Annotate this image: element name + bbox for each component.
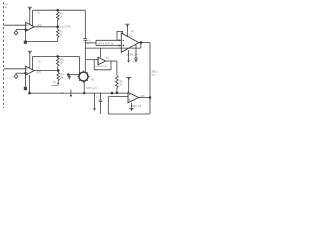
svg-text:1u: 1u [96,96,99,98]
svg-text:4(1): 4(1) [37,24,41,27]
wire top rail [33,9,86,11]
svg-text:LM358_1/4: LM358_1/4 [126,54,139,57]
node at U4 output [149,97,151,99]
supply arrow below R4 [57,81,59,86]
svg-text:(2): (2) [38,61,41,64]
ground arrow at motor left [68,75,72,80]
wire stub left of R4 arrow [52,84,59,86]
svg-text:1/: 1/ [5,5,7,9]
node on bottom rail left [29,92,31,94]
wire filter input split [95,40,97,45]
ground pad box U1 [24,41,27,44]
pin marks U2 [26,69,27,73]
minus mark U3a [123,39,125,41]
label R4 value [60,74,64,80]
svg-text:2k: 2k [119,84,122,87]
label (2) [38,61,41,64]
wire feedback down from output [140,43,142,49]
wire U1 output [34,26,58,28]
node junction at U1 output / R1 / R2 [57,26,59,28]
svg-text:LM358_1/4: LM358_1/4 [95,66,107,68]
label (1) [37,12,40,15]
wire feedback over top of U3a [117,31,123,40]
svg-text:2V: 2V [53,81,56,84]
svg-text:1/4: 1/4 [105,58,109,60]
label right column values [151,70,158,77]
wire down from U2 plus node [25,73,27,87]
plus mark U3a [123,45,125,47]
op-amp U3b [98,57,106,65]
supply arrow below motor area [70,90,72,98]
wire U3a output [139,42,150,44]
label 4(7) [37,71,41,74]
power tap V+ above U2 [28,51,32,68]
ground diamond near U1 [14,30,18,35]
svg-text:1/4: 1/4 [130,30,134,33]
wire U3b feedback loop [94,60,111,70]
node junction at U2 output / R3 / R4 [57,70,59,72]
label LM358 below U3b [95,66,107,68]
wire riser to U3b [100,48,102,57]
wire riser to top rail [32,10,34,26]
svg-text:2k: 2k [60,34,63,37]
op-amp U3a [121,33,138,52]
node on motor left wire [67,74,69,76]
node on rail at R1 [57,9,59,11]
label C1 value [87,40,92,46]
arrow into inverting input [119,39,122,41]
label near cap C4 [96,96,105,100]
wire U2 noninverting input [16,72,26,74]
wire mid rail drop to motor [78,56,80,74]
svg-text:1u /: 1u / [151,73,156,77]
ground diamond near U2 [14,73,18,78]
label LM358 below U3a [126,54,139,57]
node on mid rail at R3 [57,56,59,58]
wire U3a inverting input [96,39,121,41]
ground below U4 [129,103,133,112]
wire motor bottom lead [83,81,85,93]
wire return to R2 bottom [26,40,58,42]
node label top-left [5,2,8,9]
label 2(8) [140,95,145,98]
label 2V [53,81,56,84]
node on bottom rail mid [111,92,113,94]
svg-text:1/4: 1/4 [129,35,133,38]
node junction U2 plus input [25,72,27,74]
wire feedback horizontal [85,47,141,49]
svg-text:4(7): 4(7) [37,71,41,74]
label 1/4 at U3b [105,58,109,60]
node motor bottom on rail [83,92,85,94]
arrow into noninverting input [119,44,122,46]
svg-text:2(8): 2(8) [140,95,145,98]
wire riser U2 output to mid rail [32,56,34,70]
wire U2 to bottom rail [29,75,31,93]
node at U3a output [140,42,142,44]
label LM358 below U4 [130,106,142,108]
svg-text:M1: M1 [91,78,95,81]
wire supply bus upper [84,10,86,38]
wire stub to filter input [85,42,96,44]
wire U2 inverting input [4,68,26,70]
wire U1 noninverting input [16,29,26,31]
supply symbol below U3a pin 2 [135,44,137,63]
label R1 value [60,12,64,18]
wire bottom rail [30,92,128,94]
label R2 value [60,31,64,37]
wire down from U1 plus node [25,30,27,42]
label bottom-left near dashed line [5,102,7,104]
resistor R2 [56,27,59,42]
svg-text:2k: 2k [60,62,63,65]
resistor R1 [56,10,59,27]
svg-text:LP FILTER 2k: LP FILTER 2k [98,42,114,45]
net label 1u 1/ LP 2k [59,25,72,28]
ground arrow below U3a pin 1 [127,50,130,63]
op-amp U2 [26,66,35,75]
svg-text:MOT_1/4: MOT_1/4 [87,87,98,90]
svg-text:1/: 1/ [103,98,105,100]
label M1 [91,78,95,81]
node junction U1 plus input [25,29,27,31]
plus mark U3b [98,59,99,63]
resistor R4 [57,71,60,81]
wire motor left to ground [68,74,79,76]
label 4(1) [37,24,41,27]
wire U4 feedback box top [108,96,128,98]
node R5 to bottom rail [116,92,118,94]
wire U2 output [34,70,58,72]
motor M1 [78,71,90,83]
pin marks U4 [129,95,130,100]
svg-text:(1): (1) [37,12,40,15]
op-amp U1 [26,22,35,31]
dashed boundary line [3,2,5,108]
svg-text:2k: 2k [60,15,63,18]
wire U4 feedback box left [107,97,109,114]
wire U4 feedback box bottom [108,113,150,115]
wire U3b input [85,59,98,61]
wire U1 inverting input [4,24,26,26]
wire mid rail [33,55,80,57]
wire right vertical from U3a output to U4 feedback [149,43,151,115]
svg-text:1u 1/: 1u 1/ [59,25,65,28]
label 1/4 above U3a [130,30,134,33]
svg-text:LP 2k: LP 2k [65,25,72,28]
label R5 value [119,81,123,87]
svg-text:1/: 1/ [5,102,7,104]
resistor R3 [56,56,59,70]
ground arrow below rail [93,93,96,111]
svg-text:2k: 2k [60,77,63,80]
label R3 value [60,59,64,65]
wire U3b output [106,60,117,62]
label MOT_1/4 [87,87,98,90]
wire motor top lead [84,60,86,73]
power tap V+ above U3a [125,24,129,36]
power tap V+ above U4 [126,77,131,92]
wire supply bus lower [84,40,86,60]
ground pad box U2 [24,87,27,90]
power tap V+ above U1 [28,7,32,25]
label 1/4 inside U3a [129,35,133,38]
resistor R5 [116,61,119,93]
label 1u bottom [61,92,64,95]
wire U4 output [139,97,150,99]
capacitor C4 from rail to box bottom [99,93,103,114]
wire U3a noninverting input [96,45,121,47]
capacitor C1 on bus [83,39,87,41]
pin marks U1 [26,25,27,29]
net label LP FILTER [98,42,114,45]
op-amp U4 [128,92,139,103]
